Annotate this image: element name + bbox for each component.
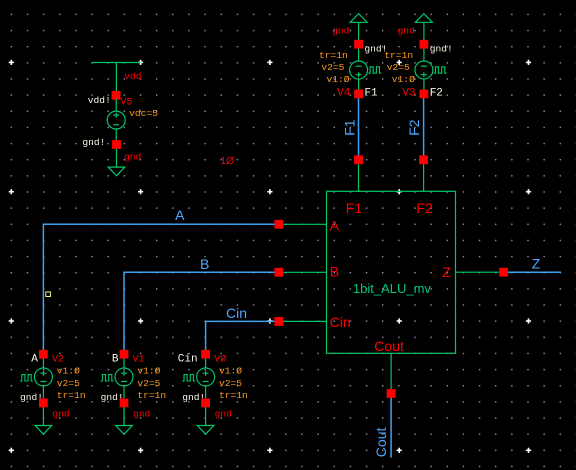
svg-text:v1:Ø: v1:Ø — [392, 74, 415, 85]
pin PLUS of V0 — [201, 350, 210, 359]
svg-text:A: A — [31, 353, 38, 365]
svg-text:gnd: gnd — [124, 152, 141, 163]
svg-text:B: B — [112, 353, 119, 365]
pin A of ALU — [283, 223, 327, 225]
source body V0 — [197, 359, 215, 399]
pin PLUS of V3 — [420, 90, 429, 99]
voltage source V0 (vpulse, net Cin) — [178, 350, 248, 434]
pin PLUS of V2 — [39, 350, 48, 359]
pin F2 of ALU — [423, 164, 425, 191]
svg-text:A: A — [330, 217, 340, 233]
svg-text:tr=1n: tr=1n — [57, 390, 86, 401]
pulse waveform icon (V2) — [20, 375, 33, 381]
wire V2 to ground — [42, 407, 44, 425]
pin MINUS of V2 — [39, 399, 48, 408]
pin MINUS of V5 — [112, 140, 121, 149]
pin MINUS of V1 — [120, 399, 129, 408]
voltage source V5 (vdc) — [107, 99, 125, 140]
ground symbol (V2) — [35, 426, 52, 435]
svg-text:F1: F1 — [346, 200, 363, 216]
pin F1 of ALU — [358, 164, 360, 191]
svg-text:1Ø: 1Ø — [220, 155, 234, 167]
wire net B — [124, 272, 275, 350]
voltage source V1 (vpulse, net B) — [101, 350, 167, 434]
svg-text:1bit_ALU_mv: 1bit_ALU_mv — [353, 281, 432, 296]
svg-text:V1: V1 — [133, 354, 145, 365]
wire V5 to ground — [116, 149, 118, 167]
svg-text:gnd!: gnd! — [430, 43, 453, 54]
wire net A — [43, 224, 274, 350]
pin Z of ALU — [456, 271, 500, 273]
wire net Z — [508, 271, 561, 273]
marker square — [46, 292, 51, 297]
ground symbol (V3, inverted) — [415, 14, 432, 40]
wire net F2 — [423, 98, 425, 155]
svg-text:B: B — [200, 256, 209, 272]
wire net Cout — [390, 398, 392, 458]
wire V1 to ground — [123, 407, 125, 425]
pin MINUS of V3 — [420, 40, 429, 49]
ground symbol (V1) — [116, 426, 133, 435]
svg-text:v2=5: v2=5 — [321, 62, 344, 73]
ground symbol (V5) — [108, 167, 125, 176]
pulse waveform icon (V3) — [434, 67, 447, 73]
pin MINUS of V4 — [354, 40, 363, 49]
wire net F1 — [358, 98, 360, 155]
svg-text:v1:Ø: v1:Ø — [219, 366, 242, 377]
svg-text:gnd: gnd — [332, 26, 349, 37]
svg-text:vdd!: vdd! — [88, 95, 111, 106]
svg-text:Cout: Cout — [374, 338, 404, 354]
svg-text:gnd!: gnd! — [82, 137, 105, 148]
svg-text:v2=5: v2=5 — [387, 62, 410, 73]
svg-text:gnd: gnd — [215, 409, 232, 420]
svg-text:F2: F2 — [430, 88, 443, 100]
svg-text:F2: F2 — [416, 200, 433, 216]
svg-text:v2=5: v2=5 — [137, 378, 160, 389]
pin PLUS of V4 — [354, 90, 363, 99]
svg-text:tr=1n: tr=1n — [319, 50, 348, 61]
svg-text:F1: F1 — [342, 119, 358, 136]
svg-text:Cin: Cin — [330, 314, 351, 330]
wire net Cin — [206, 321, 275, 350]
pin PLUS of V5 — [112, 91, 121, 100]
voltage source V2 (vpulse, net A) — [20, 350, 86, 434]
svg-text:B: B — [330, 264, 339, 280]
svg-text:v2=5: v2=5 — [57, 378, 80, 389]
value labels of V4 — [319, 50, 350, 85]
svg-text:Cin: Cin — [178, 353, 198, 365]
svg-text:v1:Ø: v1:Ø — [57, 366, 80, 377]
value labels of V0 — [219, 366, 248, 402]
svg-text:V2: V2 — [52, 354, 64, 365]
svg-text:vdc=5: vdc=5 — [129, 108, 158, 119]
svg-text:V3: V3 — [402, 88, 415, 100]
voltage source V4 (vpulse) — [350, 49, 368, 90]
svg-text:tr=1n: tr=1n — [137, 390, 166, 401]
svg-text:gnd: gnd — [52, 409, 69, 420]
value labels of V2 — [57, 366, 86, 402]
svg-text:A: A — [175, 207, 185, 223]
svg-text:VØ: VØ — [214, 353, 226, 365]
voltage source V3 (vpulse) — [415, 49, 433, 90]
pin PLUS of V1 — [120, 350, 129, 359]
pin Cin of ALU — [283, 320, 327, 322]
svg-text:v1:Ø: v1:Ø — [327, 74, 350, 85]
svg-text:v2=5: v2=5 — [219, 378, 242, 389]
value labels of V1 — [137, 366, 166, 402]
svg-text:Cin: Cin — [226, 305, 247, 321]
power symbol vdd — [92, 63, 141, 93]
major grid markers — [9, 60, 531, 453]
svg-text:tr=1n: tr=1n — [384, 50, 413, 61]
svg-text:F2: F2 — [406, 119, 422, 136]
svg-text:Z: Z — [442, 264, 451, 280]
op-amp U0 1bit_ALU_mv symbol body — [327, 191, 456, 353]
pin MINUS of V0 — [201, 399, 210, 408]
value labels of V3 — [384, 50, 415, 85]
svg-text:V4: V4 — [337, 88, 351, 100]
svg-text:gnd: gnd — [398, 26, 415, 37]
pin Cout of ALU — [390, 353, 392, 389]
svg-text:tr=1n: tr=1n — [219, 390, 248, 401]
svg-text:Cout: Cout — [373, 428, 389, 458]
ground symbol (V4, inverted) — [350, 14, 367, 40]
wire V0 to ground — [205, 407, 207, 425]
pulse waveform icon (V1) — [101, 375, 114, 381]
svg-text:v1:Ø: v1:Ø — [137, 366, 160, 377]
pulse waveform icon (V0) — [182, 375, 195, 381]
source body V2 — [34, 359, 52, 399]
svg-text:F1: F1 — [364, 88, 378, 100]
svg-text:Z: Z — [532, 256, 541, 272]
svg-text:vdd: vdd — [124, 71, 141, 82]
pin B of ALU — [283, 271, 327, 273]
svg-text:gnd: gnd — [133, 409, 150, 420]
source body V1 — [115, 359, 133, 399]
pulse waveform icon (V4) — [368, 67, 381, 73]
ground symbol (V0) — [197, 426, 214, 435]
